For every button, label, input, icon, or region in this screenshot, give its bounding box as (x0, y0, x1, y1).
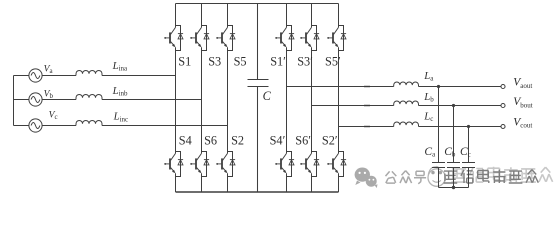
inductor La (394, 82, 419, 87)
junction mark on output phase b (364, 105, 370, 107)
wire inductor La to terminal (419, 86, 501, 88)
switch S6 (IGBT with antiparallel diode) (190, 152, 209, 177)
svg-text:S2: S2 (231, 134, 244, 148)
svg-text:S2′: S2′ (322, 134, 338, 148)
capacitor Cb (447, 106, 460, 188)
svg-text:S5′: S5′ (325, 54, 341, 68)
switch S5' (IGBT with antiparallel diode) (327, 26, 346, 51)
wire leg 6 vertical segments (338, 4, 340, 193)
svg-text:Cc: Cc (460, 146, 471, 159)
wire inductor Lb to terminal (419, 105, 501, 107)
svg-text:Lb: Lb (423, 91, 434, 104)
svg-text:Lc: Lc (423, 110, 433, 123)
switch S2 (IGBT with antiparallel diode) (216, 152, 235, 177)
svg-text:S5: S5 (234, 54, 247, 68)
inductor L_ina (76, 70, 102, 75)
inductor L_inc (76, 120, 102, 125)
svg-text:Ca: Ca (424, 146, 436, 159)
wire inductor to leg 2 (102, 99, 202, 101)
svg-text:C: C (263, 89, 272, 103)
svg-text:S3: S3 (208, 54, 221, 68)
switch S1 (IGBT with antiparallel diode) (164, 26, 183, 51)
switch S3' (IGBT with antiparallel diode) (300, 26, 319, 51)
terminal Vaout (501, 84, 505, 88)
watermark circle logo (428, 169, 445, 186)
watermark text dark (444, 171, 458, 183)
svg-text:S1: S1 (178, 54, 191, 68)
switch S4 (IGBT with antiparallel diode) (164, 152, 183, 177)
watermark squiggle arrow (428, 166, 439, 174)
node neutral junction dot (452, 186, 455, 189)
node junction dot phase a (437, 85, 440, 88)
terminal Vbout (501, 103, 505, 107)
svg-text:Vaout: Vaout (513, 77, 532, 90)
capacitor Cc (462, 127, 475, 188)
switch S3 (IGBT with antiparallel diode) (190, 26, 209, 51)
wire output phase b from leg to inductor (312, 105, 394, 107)
switch S5 (IGBT with antiparallel diode) (216, 26, 235, 51)
wire bus to source Vb (14, 99, 29, 101)
AC source Vc (29, 119, 42, 132)
capacitor C (dc link) (248, 4, 269, 193)
svg-text:S1′: S1′ (270, 54, 286, 68)
svg-text:S4: S4 (179, 134, 192, 148)
terminal Vcout (501, 124, 505, 128)
wire bus to source Vc (14, 125, 29, 127)
switch S6' (IGBT with antiparallel diode) (300, 152, 319, 177)
svg-text:La: La (423, 70, 434, 83)
wire capacitor neutral bus (439, 187, 469, 189)
wire source Vc to inductor (42, 125, 76, 127)
AC source Va (29, 69, 42, 82)
node junction dot phase b (452, 104, 455, 107)
svg-text:Vc: Vc (49, 109, 58, 121)
node junction dot phase c (467, 125, 470, 128)
wire leg 3 vertical segments (227, 4, 229, 193)
wire inductor to leg 1 (102, 75, 176, 77)
svg-text:S6: S6 (204, 134, 217, 148)
switch S2' (IGBT with antiparallel diode) (327, 152, 346, 177)
watermark wechat logo (355, 168, 378, 189)
node: input neutral bus wire (13, 76, 15, 126)
wire leg 2 vertical segments (201, 4, 203, 193)
svg-text:Cb: Cb (444, 146, 456, 159)
wire leg 4 vertical segments (286, 4, 288, 193)
svg-text:Vcout: Vcout (513, 117, 532, 130)
wire inductor to leg 3 (102, 125, 228, 127)
AC source Vb (29, 93, 42, 106)
wire output phase c from leg to inductor (339, 126, 394, 128)
svg-text:Linc: Linc (113, 111, 129, 124)
wire source Va to inductor (42, 75, 76, 77)
watermark text light (big) (451, 169, 466, 182)
svg-text:Lina: Lina (112, 60, 128, 73)
junction mark on output phase a (364, 86, 370, 88)
inductor Lc (394, 122, 419, 127)
svg-text:S4′: S4′ (270, 134, 286, 148)
svg-text:S6′: S6′ (295, 134, 311, 148)
inductor Lb (394, 101, 419, 106)
wire bottom dc rail (176, 191, 339, 193)
switch S4' (IGBT with antiparallel diode) (275, 152, 294, 177)
wire leg 5 vertical segments (311, 4, 313, 193)
wire output phase a from leg to inductor (287, 86, 394, 88)
wire bus to source Va (14, 75, 29, 77)
svg-text:S3′: S3′ (297, 54, 313, 68)
junction mark on output phase c (364, 126, 370, 128)
wire top dc rail (176, 3, 339, 5)
capacitor Ca (432, 87, 445, 188)
watermark text gongzhonghao (386, 171, 397, 183)
inductor L_inb (76, 94, 102, 99)
svg-text:Vb: Vb (44, 89, 54, 101)
wire leg 1 vertical segments (175, 4, 177, 193)
wire inductor Lc to terminal (419, 126, 501, 128)
wire source Vb to inductor (42, 99, 76, 101)
svg-text:Va: Va (44, 63, 54, 75)
switch S1' (IGBT with antiparallel diode) (275, 26, 294, 51)
svg-text:Linb: Linb (112, 85, 128, 98)
svg-text:Vbout: Vbout (513, 96, 533, 109)
